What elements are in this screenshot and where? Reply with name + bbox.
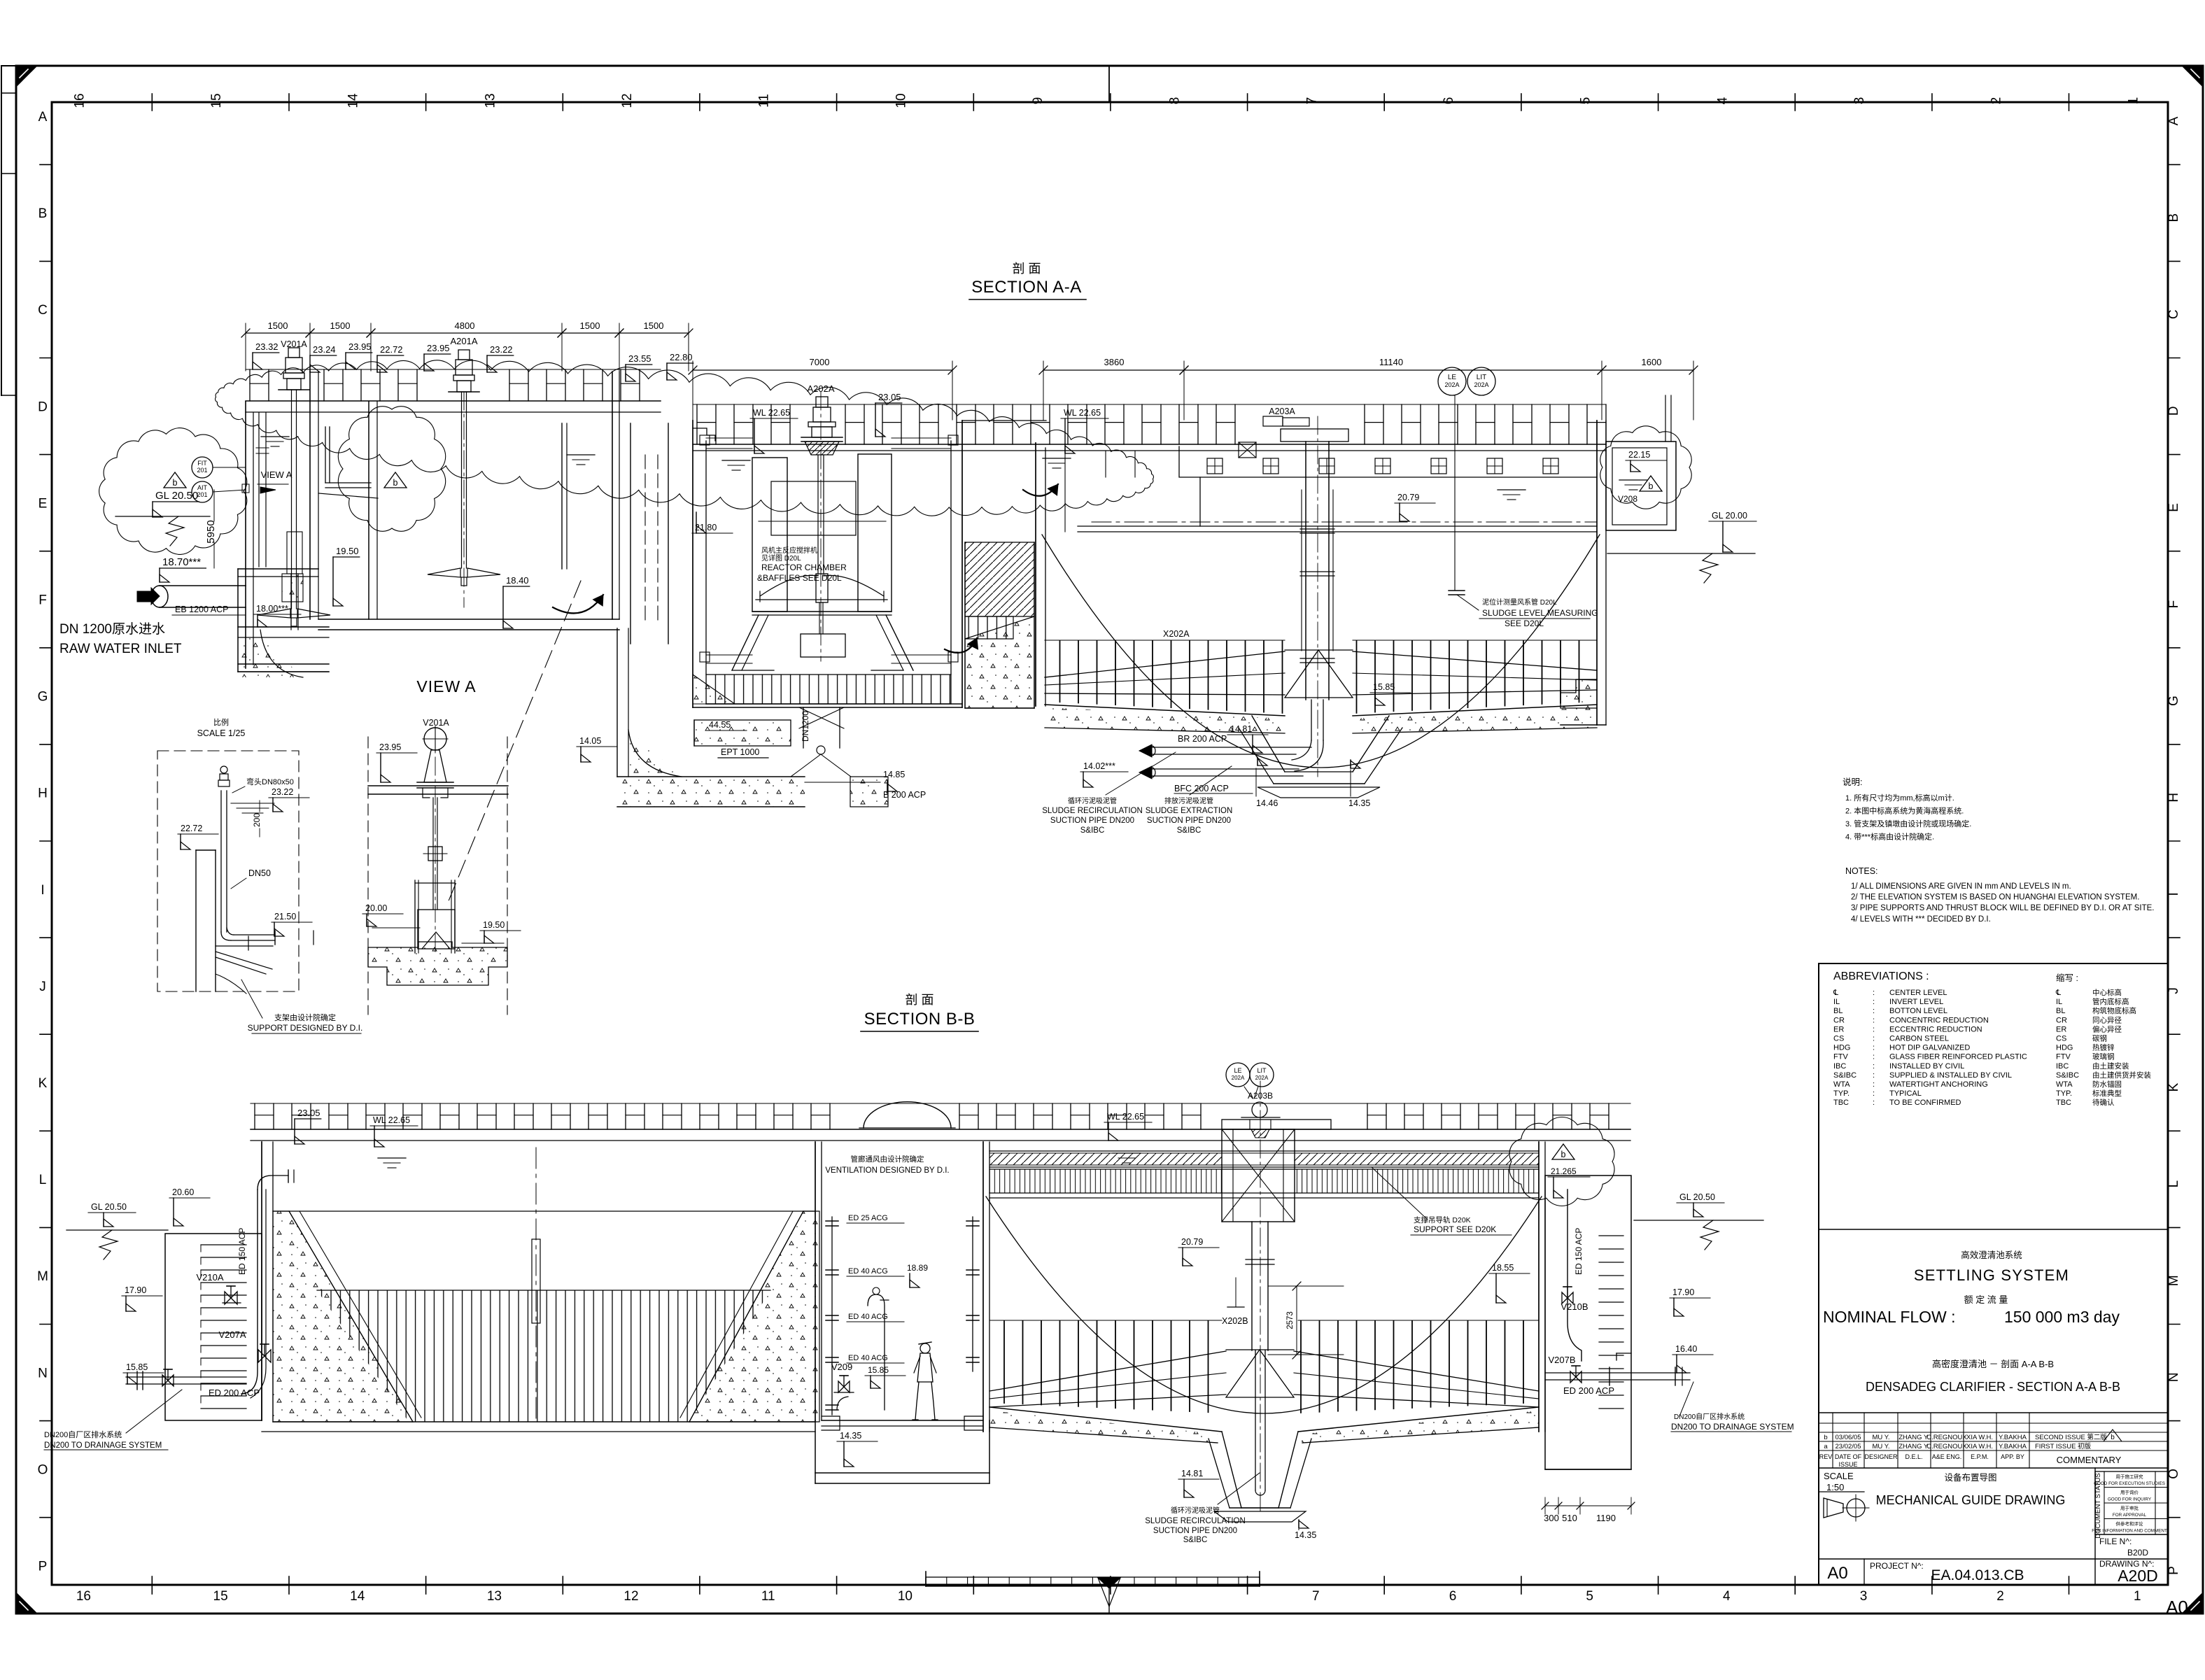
svg-text:23.22: 23.22	[272, 787, 293, 797]
svg-text:CONCENTRIC REDUCTION: CONCENTRIC REDUCTION	[1889, 1016, 1989, 1024]
svg-text:16: 16	[72, 93, 87, 108]
settler hangers	[1105, 451, 1106, 477]
svg-text:18.89: 18.89	[907, 1263, 928, 1273]
svg-text:DENSADEG CLARIFIER - SECTION A: DENSADEG CLARIFIER - SECTION A-A B-B	[1866, 1380, 2120, 1394]
svg-text:1:50: 1:50	[1826, 1482, 1844, 1492]
svg-text:ED 40 ACG: ED 40 ACG	[848, 1313, 888, 1321]
centreline A202A	[820, 392, 822, 661]
svg-text:23/02/05: 23/02/05	[1836, 1443, 1861, 1450]
svg-text:VENTILATION DESIGNED BY D.I.: VENTILATION DESIGNED BY D.I.	[825, 1166, 949, 1175]
svg-text:BL: BL	[2056, 1007, 2065, 1015]
svg-text:14.46: 14.46	[1256, 798, 1278, 808]
svg-text:S&IBC: S&IBC	[2056, 1071, 2079, 1080]
svg-text:剖 面: 剖 面	[1012, 262, 1041, 276]
svg-text:22.15: 22.15	[1628, 450, 1650, 460]
svg-text:WL 22.65: WL 22.65	[373, 1115, 410, 1125]
svg-text:1/ ALL DIMENSIONS ARE GIVEN IN: 1/ ALL DIMENSIONS ARE GIVEN IN mm AND LE…	[1851, 882, 2071, 891]
svg-text:E.P.M.: E.P.M.	[1971, 1453, 1989, 1460]
svg-text:2573: 2573	[1286, 1311, 1295, 1329]
revision cloud around instruments	[99, 428, 247, 555]
svg-text::: :	[1873, 1035, 1875, 1043]
svg-text:11: 11	[761, 1589, 775, 1604]
B-B basin walls	[261, 1142, 262, 1420]
svg-text:14: 14	[350, 1589, 365, 1604]
clarifier floor left	[1045, 705, 1285, 716]
svg-text:11: 11	[757, 94, 772, 108]
svg-text:DESIGNER: DESIGNER	[1864, 1453, 1898, 1460]
B-B instrument circles LE LIT	[1226, 1063, 1250, 1087]
svg-text:TYP.: TYP.	[1833, 1089, 1850, 1098]
svg-text:B20D: B20D	[2127, 1548, 2148, 1558]
B-B dish curve	[986, 1197, 1542, 1413]
svg-text:ISSUE: ISSUE	[1838, 1461, 1857, 1468]
B-B floor	[989, 1407, 1222, 1432]
svg-text:REACTOR CHAMBER: REACTOR CHAMBER	[761, 563, 847, 572]
svg-text:S&IBC: S&IBC	[1080, 826, 1105, 835]
svg-text:200: 200	[252, 813, 262, 827]
B-B centre shaft	[1251, 1222, 1253, 1350]
V201A handwheel and cone	[424, 728, 446, 750]
svg-text:WTA: WTA	[1833, 1080, 1850, 1089]
svg-text:A201A: A201A	[450, 336, 477, 346]
svg-text:用于审批: 用于审批	[2120, 1505, 2139, 1511]
suction pipe elbow	[1311, 700, 1312, 740]
V201A inlet downcomer pipe	[258, 413, 260, 567]
centre pit walls	[1252, 716, 1285, 772]
svg-text:INSTALLED BY CIVIL: INSTALLED BY CIVIL	[1889, 1062, 1964, 1071]
svg-text:ED 150 ACP: ED 150 ACP	[1574, 1228, 1584, 1275]
svg-text:6: 6	[1449, 1589, 1457, 1604]
document status box	[2094, 1468, 2096, 1585]
svg-text:1600: 1600	[1642, 357, 1662, 367]
svg-text:碳钢: 碳钢	[2092, 1034, 2107, 1043]
svg-text:19.50: 19.50	[336, 546, 359, 556]
svg-text:泥位计测量风系管 D20L: 泥位计测量风系管 D20L	[1482, 598, 1557, 607]
svg-text:BFC 200 ACP: BFC 200 ACP	[1174, 784, 1229, 793]
svg-text::: :	[1873, 1062, 1875, 1071]
svg-text:用于施工研究: 用于施工研究	[2116, 1474, 2144, 1480]
svg-text:INVERT LEVEL: INVERT LEVEL	[1889, 998, 1943, 1006]
svg-text:11140: 11140	[1379, 357, 1403, 367]
centreline V201A detail	[435, 728, 436, 952]
svg-text:14.81: 14.81	[1230, 724, 1252, 734]
gallery floor	[822, 1420, 983, 1421]
svg-text:HOT DIP GALVANIZED: HOT DIP GALVANIZED	[1889, 1044, 1970, 1052]
svg-text:CS: CS	[1833, 1035, 1844, 1043]
svg-text:A203A: A203A	[1269, 407, 1295, 416]
svg-text:G: G	[38, 690, 48, 705]
svg-text:M: M	[37, 1269, 48, 1284]
svg-text:21.265: 21.265	[1551, 1166, 1577, 1176]
title block outline	[1818, 963, 1819, 1585]
svg-text:E: E	[2167, 503, 2181, 512]
svg-text:44.55: 44.55	[709, 720, 731, 730]
svg-text:ZHANG Y.: ZHANG Y.	[1898, 1443, 1929, 1450]
clarifier left wall	[1035, 443, 1036, 706]
triangle b outlet	[1640, 476, 1662, 491]
svg-text:14: 14	[346, 93, 361, 108]
svg-text:V210B: V210B	[1561, 1301, 1588, 1312]
svg-text:M: M	[2167, 1275, 2181, 1286]
svg-text:18.70***: 18.70***	[162, 556, 201, 568]
svg-text:K: K	[38, 1076, 48, 1091]
second chamber wall	[368, 402, 369, 619]
svg-text::: :	[1873, 998, 1875, 1006]
svg-text:18.55: 18.55	[1492, 1263, 1514, 1273]
svg-text:A: A	[2167, 116, 2181, 125]
detail water line	[231, 803, 274, 804]
svg-text:b: b	[2111, 1434, 2115, 1441]
svg-text:PROJECT N^:: PROJECT N^:	[1870, 1561, 1924, 1571]
svg-text:供参考和评论: 供参考和评论	[2116, 1520, 2144, 1527]
svg-text:15: 15	[213, 1589, 228, 1604]
svg-text:TO BE CONFIRMED: TO BE CONFIRMED	[1889, 1099, 1961, 1107]
svg-text:高密度澄清池 － 剖面 A-A B-B: 高密度澄清池 － 剖面 A-A B-B	[1932, 1359, 2054, 1369]
svg-text:LE: LE	[1234, 1067, 1241, 1074]
svg-text:TBC: TBC	[1833, 1099, 1849, 1107]
svg-text:SLUDGE EXTRACTION: SLUDGE EXTRACTION	[1146, 807, 1233, 815]
svg-text:BL: BL	[1833, 1007, 1843, 1015]
svg-text:FILE N^:: FILE N^:	[2099, 1537, 2132, 1546]
walkway band main deck	[693, 404, 1606, 405]
binding strip top-left	[1, 66, 2, 395]
svg-text:IBC: IBC	[1833, 1062, 1846, 1071]
svg-text:防水锚固: 防水锚固	[2092, 1080, 2122, 1089]
svg-text:GLASS FIBER REINFORCED PLASTIC: GLASS FIBER REINFORCED PLASTIC	[1889, 1053, 2027, 1061]
svg-text:SLUDGE LEVEL MEASURING: SLUDGE LEVEL MEASURING	[1482, 608, 1598, 618]
V201A foundation block	[368, 942, 507, 985]
svg-text:E: E	[38, 496, 48, 511]
wall column left detail	[195, 850, 197, 991]
svg-text:DN200 TO DRAINAGE SYSTEM: DN200 TO DRAINAGE SYSTEM	[44, 1441, 162, 1450]
svg-text:风机主反应搅拌机: 风机主反应搅拌机	[761, 546, 817, 555]
svg-text:GL 20.50: GL 20.50	[91, 1202, 127, 1212]
EPT pit and pipe DN1200	[617, 628, 618, 777]
corner trim marks	[17, 66, 36, 86]
svg-text:A&E ENG.: A&E ENG.	[1932, 1453, 1962, 1460]
dims 300 510 1190	[1545, 1505, 1631, 1506]
svg-text:6: 6	[1442, 97, 1456, 105]
svg-text:DN200 TO DRAINAGE SYSTEM: DN200 TO DRAINAGE SYSTEM	[1671, 1422, 1794, 1432]
reactor floor grid	[706, 675, 951, 704]
svg-text:4: 4	[1723, 1589, 1731, 1604]
worker figure	[920, 1343, 930, 1353]
svg-text:EA.04.013.CB: EA.04.013.CB	[1931, 1567, 2024, 1583]
svg-text:3: 3	[1860, 1589, 1868, 1604]
svg-text:D.E.L.: D.E.L.	[1905, 1453, 1922, 1460]
svg-text:ED 200 ACP: ED 200 ACP	[1563, 1385, 1614, 1396]
V201A deck lines	[368, 785, 508, 786]
svg-text:CR: CR	[2056, 1016, 2067, 1024]
weir inside right channel	[1616, 1353, 1631, 1354]
svg-text:9: 9	[1031, 97, 1045, 105]
svg-text:300: 300	[1544, 1513, 1559, 1523]
svg-text:22.80: 22.80	[670, 352, 693, 362]
svg-text:17.90: 17.90	[125, 1285, 146, 1295]
svg-text::: :	[1873, 1099, 1875, 1107]
svg-text:CR: CR	[1833, 1016, 1845, 1024]
svg-text:202A: 202A	[1232, 1075, 1245, 1081]
svg-text:1: 1	[2134, 1589, 2141, 1604]
inlet chamber footing concrete	[260, 630, 303, 677]
svg-text:202A: 202A	[1255, 1075, 1269, 1081]
B-B tines left	[989, 1320, 1222, 1413]
svg-text:REV: REV	[1819, 1453, 1833, 1460]
scraper tines left	[1045, 640, 1285, 714]
svg-text:1500: 1500	[644, 320, 664, 331]
svg-text:VIEW A: VIEW A	[416, 677, 476, 696]
detail pipe elbow and horizontal run	[221, 932, 231, 940]
svg-text:见详图 D20L: 见详图 D20L	[761, 553, 801, 563]
svg-text:IBC: IBC	[2056, 1062, 2069, 1071]
outlet box right	[1606, 442, 1676, 530]
svg-text:LIT: LIT	[1477, 374, 1486, 381]
walkway band left tanks	[246, 369, 661, 370]
svg-text:14.05: 14.05	[579, 736, 601, 746]
svg-text:ED 40 ACG: ED 40 ACG	[848, 1354, 888, 1362]
svg-text:A203B: A203B	[1248, 1091, 1273, 1101]
svg-text:SECTION A-A: SECTION A-A	[971, 278, 1082, 297]
svg-text::: :	[1873, 989, 1875, 997]
right channel ladder	[1599, 1235, 1623, 1236]
svg-text:BR 200 ACP: BR 200 ACP	[1178, 734, 1227, 744]
V201A inlet chamber walls	[245, 402, 246, 668]
svg-text:APP. BY: APP. BY	[2001, 1453, 2024, 1460]
svg-text:5: 5	[1586, 1589, 1593, 1604]
svg-text:偏心异径: 偏心异径	[2092, 1024, 2122, 1033]
svg-text:L: L	[2167, 1180, 2181, 1188]
outlet box cloud	[1600, 426, 1691, 509]
V201A gate guides	[414, 880, 416, 953]
bottom centimetre scale bar	[926, 1577, 1260, 1586]
svg-text:J: J	[2167, 987, 2181, 994]
svg-text:循环污泥吸泥管: 循环污泥吸泥管	[1171, 1506, 1220, 1515]
svg-text:D: D	[2167, 406, 2181, 416]
basin water line	[273, 1210, 815, 1212]
svg-text:AIT: AIT	[197, 484, 208, 491]
svg-text:13: 13	[483, 93, 498, 108]
svg-text:ZHANG Y.: ZHANG Y.	[1898, 1434, 1929, 1441]
left channel ladder dashes	[201, 1244, 246, 1245]
svg-text:23.95: 23.95	[348, 341, 372, 352]
svg-text:SLUDGE RECIRCULATION: SLUDGE RECIRCULATION	[1145, 1517, 1246, 1525]
fold mark bottom centre	[1098, 1578, 1120, 1588]
centreline A201A	[463, 392, 465, 607]
svg-text:额 定 流 量: 额 定 流 量	[1964, 1294, 2008, 1305]
svg-text:SUCTION PIPE DN200: SUCTION PIPE DN200	[1147, 817, 1231, 825]
right slope concrete	[689, 1211, 819, 1422]
svg-text:L: L	[39, 1173, 47, 1187]
svg-text:ED 40 ACG: ED 40 ACG	[848, 1267, 888, 1276]
ED 200 ACP pipe bottom	[126, 1376, 246, 1378]
svg-text:MECHANICAL GUIDE DRAWING: MECHANICAL GUIDE DRAWING	[1876, 1493, 2066, 1507]
svg-text:4. 带***标高由设计院确定.: 4. 带***标高由设计院确定.	[1845, 832, 1934, 842]
hatch dome on deck	[864, 1102, 951, 1128]
svg-text:构筑物底标高: 构筑物底标高	[2092, 1006, 2136, 1015]
gallery footings	[822, 1416, 840, 1430]
svg-text:ER: ER	[2056, 1025, 2066, 1033]
B-B hub	[1226, 1350, 1294, 1397]
svg-text:1500: 1500	[330, 320, 351, 331]
svg-text:12: 12	[620, 93, 635, 108]
dim 2573	[1296, 1286, 1297, 1355]
svg-text:23.05: 23.05	[878, 392, 901, 402]
svg-text:5950: 5950	[205, 520, 217, 543]
left slope concrete	[273, 1211, 413, 1422]
svg-text:SECOND ISSUE 第二版: SECOND ISSUE 第二版	[2035, 1433, 2107, 1441]
reactor corner concrete left	[693, 675, 735, 704]
basin floor	[273, 1421, 815, 1423]
revision triangle b centre	[384, 472, 407, 488]
svg-text:b: b	[1824, 1434, 1827, 1441]
reactor baffle column left	[752, 458, 787, 612]
view A right detail borders	[367, 737, 369, 1015]
clarifier centre column	[1305, 442, 1306, 700]
svg-text:HDG: HDG	[2056, 1044, 2073, 1052]
svg-text:P: P	[2167, 1566, 2181, 1575]
svg-text:NOMINAL FLOW :: NOMINAL FLOW :	[1823, 1308, 1956, 1326]
svg-text:B: B	[38, 206, 48, 221]
centreline clarifier column A-A	[1317, 416, 1318, 777]
svg-text:WTA: WTA	[2056, 1080, 2073, 1089]
svg-text:14.81: 14.81	[1181, 1469, 1203, 1478]
svg-text::: :	[1873, 1016, 1875, 1024]
svg-text:15.85: 15.85	[126, 1362, 148, 1372]
svg-text:MU Y.: MU Y.	[1873, 1434, 1890, 1441]
svg-text:14.35: 14.35	[1348, 798, 1370, 808]
svg-text:ED 150 ACP: ED 150 ACP	[237, 1228, 247, 1275]
instrument circles LE LIT 202A	[1438, 367, 1466, 395]
svg-text:19.50: 19.50	[483, 920, 505, 930]
svg-text:EB 1200 ACP: EB 1200 ACP	[175, 605, 228, 614]
svg-text:5: 5	[1579, 97, 1593, 105]
intermediate stair wall block	[962, 420, 1046, 421]
section A-A dimension row right	[692, 361, 693, 420]
svg-text:23.95: 23.95	[427, 343, 450, 353]
ruler row ticks and letters	[40, 164, 52, 165]
svg-text:FIRST ISSUE 初版: FIRST ISSUE 初版	[2035, 1442, 2092, 1450]
svg-text:4/ LEVELS WITH *** DECIDED BY: 4/ LEVELS WITH *** DECIDED BY D.I.	[1851, 915, 1991, 924]
svg-text:14.35: 14.35	[1295, 1530, 1316, 1540]
svg-text:RAW WATER INLET: RAW WATER INLET	[59, 642, 182, 656]
svg-text:循环污泥吸泥管: 循环污泥吸泥管	[1068, 796, 1117, 805]
fold mark top centre	[1108, 66, 1110, 102]
svg-text:IL: IL	[1833, 998, 1840, 1006]
svg-text:23.32: 23.32	[255, 341, 279, 352]
transfer arrows	[1023, 484, 1058, 496]
svg-text:GOOD FOR EXECUTION STUDIES: GOOD FOR EXECUTION STUDIES	[2094, 1481, 2165, 1486]
svg-text:比例: 比例	[213, 717, 229, 727]
svg-text:16: 16	[76, 1589, 91, 1604]
svg-text:N: N	[38, 1366, 48, 1381]
V201A stem and coupling	[432, 798, 434, 910]
reactor chamber bottom and funnel legs	[752, 611, 892, 612]
svg-text:4: 4	[1715, 97, 1730, 104]
svg-text:V209: V209	[831, 1362, 852, 1372]
B-B centre housing	[1222, 1129, 1295, 1222]
outlet support	[1665, 395, 1666, 442]
scraper truss left arm	[1045, 651, 1285, 677]
centreline B-B column	[1260, 1081, 1261, 1515]
svg-text:ER: ER	[1833, 1025, 1844, 1033]
V201A mixer and gate	[288, 348, 300, 358]
svg-text:高效澄清池系统: 高效澄清池系统	[1961, 1250, 2022, 1260]
svg-text:b: b	[1649, 481, 1654, 491]
svg-text:V201A: V201A	[423, 718, 449, 728]
support bend flanges	[248, 936, 249, 950]
svg-text:DATE OF: DATE OF	[1835, 1453, 1862, 1460]
A201A weir steps right	[693, 428, 715, 441]
svg-text:用于询价: 用于询价	[2120, 1489, 2139, 1495]
svg-text:3: 3	[1852, 97, 1867, 105]
lamella band	[989, 1169, 1222, 1193]
svg-text:b: b	[1561, 1150, 1566, 1159]
svg-text:23.22: 23.22	[490, 344, 513, 355]
inner pipe in cloud	[325, 427, 326, 483]
svg-text:说明:: 说明:	[1843, 777, 1862, 787]
circulation arrow A201A	[553, 595, 603, 613]
triangle b B-B	[1552, 1144, 1575, 1159]
A202A shaft and impeller	[817, 455, 819, 574]
svg-text:WATERTIGHT ANCHORING: WATERTIGHT ANCHORING	[1889, 1080, 1988, 1089]
svg-text:排放污泥吸泥管: 排放污泥吸泥管	[1164, 796, 1213, 805]
svg-text:标准典型: 标准典型	[2092, 1089, 2122, 1098]
svg-text:中心标高: 中心标高	[2092, 988, 2122, 997]
svg-text:SLUDGE RECIRCULATION: SLUDGE RECIRCULATION	[1042, 807, 1143, 815]
B-B suction pipe down	[1255, 1350, 1256, 1490]
svg-text:N: N	[2167, 1372, 2181, 1382]
raw water inlet pipe EB1200	[160, 585, 246, 586]
svg-text:FTV: FTV	[2056, 1053, 2071, 1061]
svg-text:GOOD FOR INQUIRY: GOOD FOR INQUIRY	[2108, 1497, 2152, 1502]
svg-text:同心异径: 同心异径	[2092, 1015, 2122, 1024]
svg-text:SCALE: SCALE	[1824, 1471, 1854, 1481]
centre cage and hub	[1301, 490, 1302, 651]
gallery walls lower	[815, 1420, 816, 1483]
svg-text:20.00: 20.00	[365, 903, 387, 913]
svg-text:2. 本图中标高系统为黄海高程系统.: 2. 本图中标高系统为黄海高程系统.	[1845, 806, 1964, 816]
svg-text:C.REGNOUX: C.REGNOUX	[1926, 1434, 1967, 1441]
svg-text:13: 13	[487, 1589, 502, 1604]
B-B clarifier walls	[982, 1142, 984, 1432]
svg-text:TBC: TBC	[2056, 1099, 2071, 1107]
A201A tank internals	[612, 372, 613, 619]
svg-text:CARBON STEEL: CARBON STEEL	[1889, 1035, 1949, 1043]
svg-text:Y.BAKHA: Y.BAKHA	[1999, 1443, 2027, 1450]
svg-text:7: 7	[1312, 1589, 1320, 1604]
view A dashed leader from section	[448, 581, 581, 903]
svg-text:SETTLING SYSTEM: SETTLING SYSTEM	[1914, 1266, 2069, 1284]
svg-text:P: P	[38, 1560, 48, 1574]
svg-text:DN200自厂区排水系统: DN200自厂区排水系统	[44, 1430, 122, 1439]
cloud right B-B	[1509, 1117, 1614, 1206]
svg-text:CENTER LEVEL: CENTER LEVEL	[1889, 989, 1947, 997]
revision triangle b left	[164, 472, 186, 488]
svg-text:玻璃钢: 玻璃钢	[2092, 1052, 2115, 1061]
V201A gate plate	[418, 910, 455, 949]
svg-text:7000: 7000	[810, 357, 830, 367]
view A left detail dashed border	[157, 751, 299, 991]
launder hatch band	[989, 1153, 1222, 1165]
svg-text:1: 1	[2126, 97, 2141, 105]
svg-text:O: O	[2167, 1469, 2181, 1479]
svg-text:8: 8	[1168, 97, 1183, 105]
clarifier right wall	[1596, 421, 1598, 725]
svg-text:HDG: HDG	[1833, 1044, 1850, 1052]
svg-text:A0: A0	[1827, 1564, 1847, 1583]
svg-text:LIT: LIT	[1257, 1067, 1267, 1074]
sludge level measuring rod	[1454, 443, 1456, 591]
